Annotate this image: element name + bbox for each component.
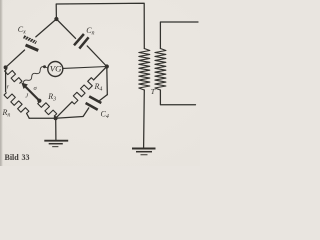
- capacitor Cx plate hatched: [23, 35, 37, 44]
- resistor Rn: [4, 93, 29, 114]
- svg-text:Cn: Cn: [86, 26, 94, 37]
- wire Cx arm upper: [36, 19, 57, 37]
- wire C4 branch vertical: [106, 67, 109, 95]
- wire left vertex down: [5, 67, 7, 91]
- wire Rn elbow to rail: [27, 113, 30, 118]
- wire flexible lead to slider: [23, 67, 44, 84]
- node left vertex: [4, 65, 8, 69]
- ground transformer: [132, 149, 156, 155]
- wire ground stub bridge: [55, 118, 57, 140]
- resistor r: [5, 69, 22, 83]
- ground bridge: [44, 141, 68, 147]
- winding T right: [155, 49, 166, 91]
- wire VG to right vertex: [63, 67, 107, 69]
- node squiggle/VG: [43, 65, 46, 68]
- wire Cn arm upper: [56, 19, 75, 38]
- wire C4 to bottom rail: [83, 108, 89, 117]
- capacitor Cn: [74, 34, 89, 49]
- capacitor Cx plate solid: [25, 44, 39, 52]
- svg-text:σ: σ: [34, 85, 38, 92]
- node B bottom vertex: [54, 116, 58, 120]
- wire C4 branch diagonal: [100, 95, 108, 101]
- slider arrow on R3: [21, 83, 39, 101]
- svg-text:33: 33: [22, 153, 30, 162]
- wire supply top right: [160, 22, 198, 49]
- resistor R4: [72, 78, 94, 104]
- svg-text:r: r: [7, 85, 10, 91]
- node slider/R3: [37, 99, 41, 103]
- svg-text:R4: R4: [94, 82, 103, 93]
- node right vertex: [105, 64, 109, 68]
- node apex: [54, 17, 58, 21]
- wire VG lead: [45, 67, 48, 68]
- svg-text:R3: R3: [47, 92, 56, 103]
- capacitor C4: [86, 96, 102, 109]
- svg-text:Rn: Rn: [2, 108, 11, 119]
- wire Cn arm lower: [87, 46, 107, 67]
- wire supply bottom right: [160, 90, 195, 105]
- wire winding1 to ground: [143, 90, 146, 148]
- wire Cx arm lower: [6, 50, 25, 67]
- wire R4 arm upper: [94, 67, 107, 80]
- svg-text:Cx: Cx: [18, 25, 26, 36]
- svg-text:Bild: Bild: [5, 153, 20, 162]
- svg-text:C4: C4: [101, 110, 109, 121]
- resistor R3: [38, 101, 57, 116]
- svg-text:J: J: [25, 92, 29, 99]
- wire R4 to node B: [56, 102, 72, 119]
- wire R3 to node B: [54, 116, 55, 117]
- wire top rail apex to transformer: [56, 3, 144, 48]
- winding T left: [139, 49, 150, 91]
- wire bottom rail: [29, 117, 83, 119]
- svg-text:VG: VG: [50, 64, 62, 74]
- galvanometer VG: [48, 62, 63, 77]
